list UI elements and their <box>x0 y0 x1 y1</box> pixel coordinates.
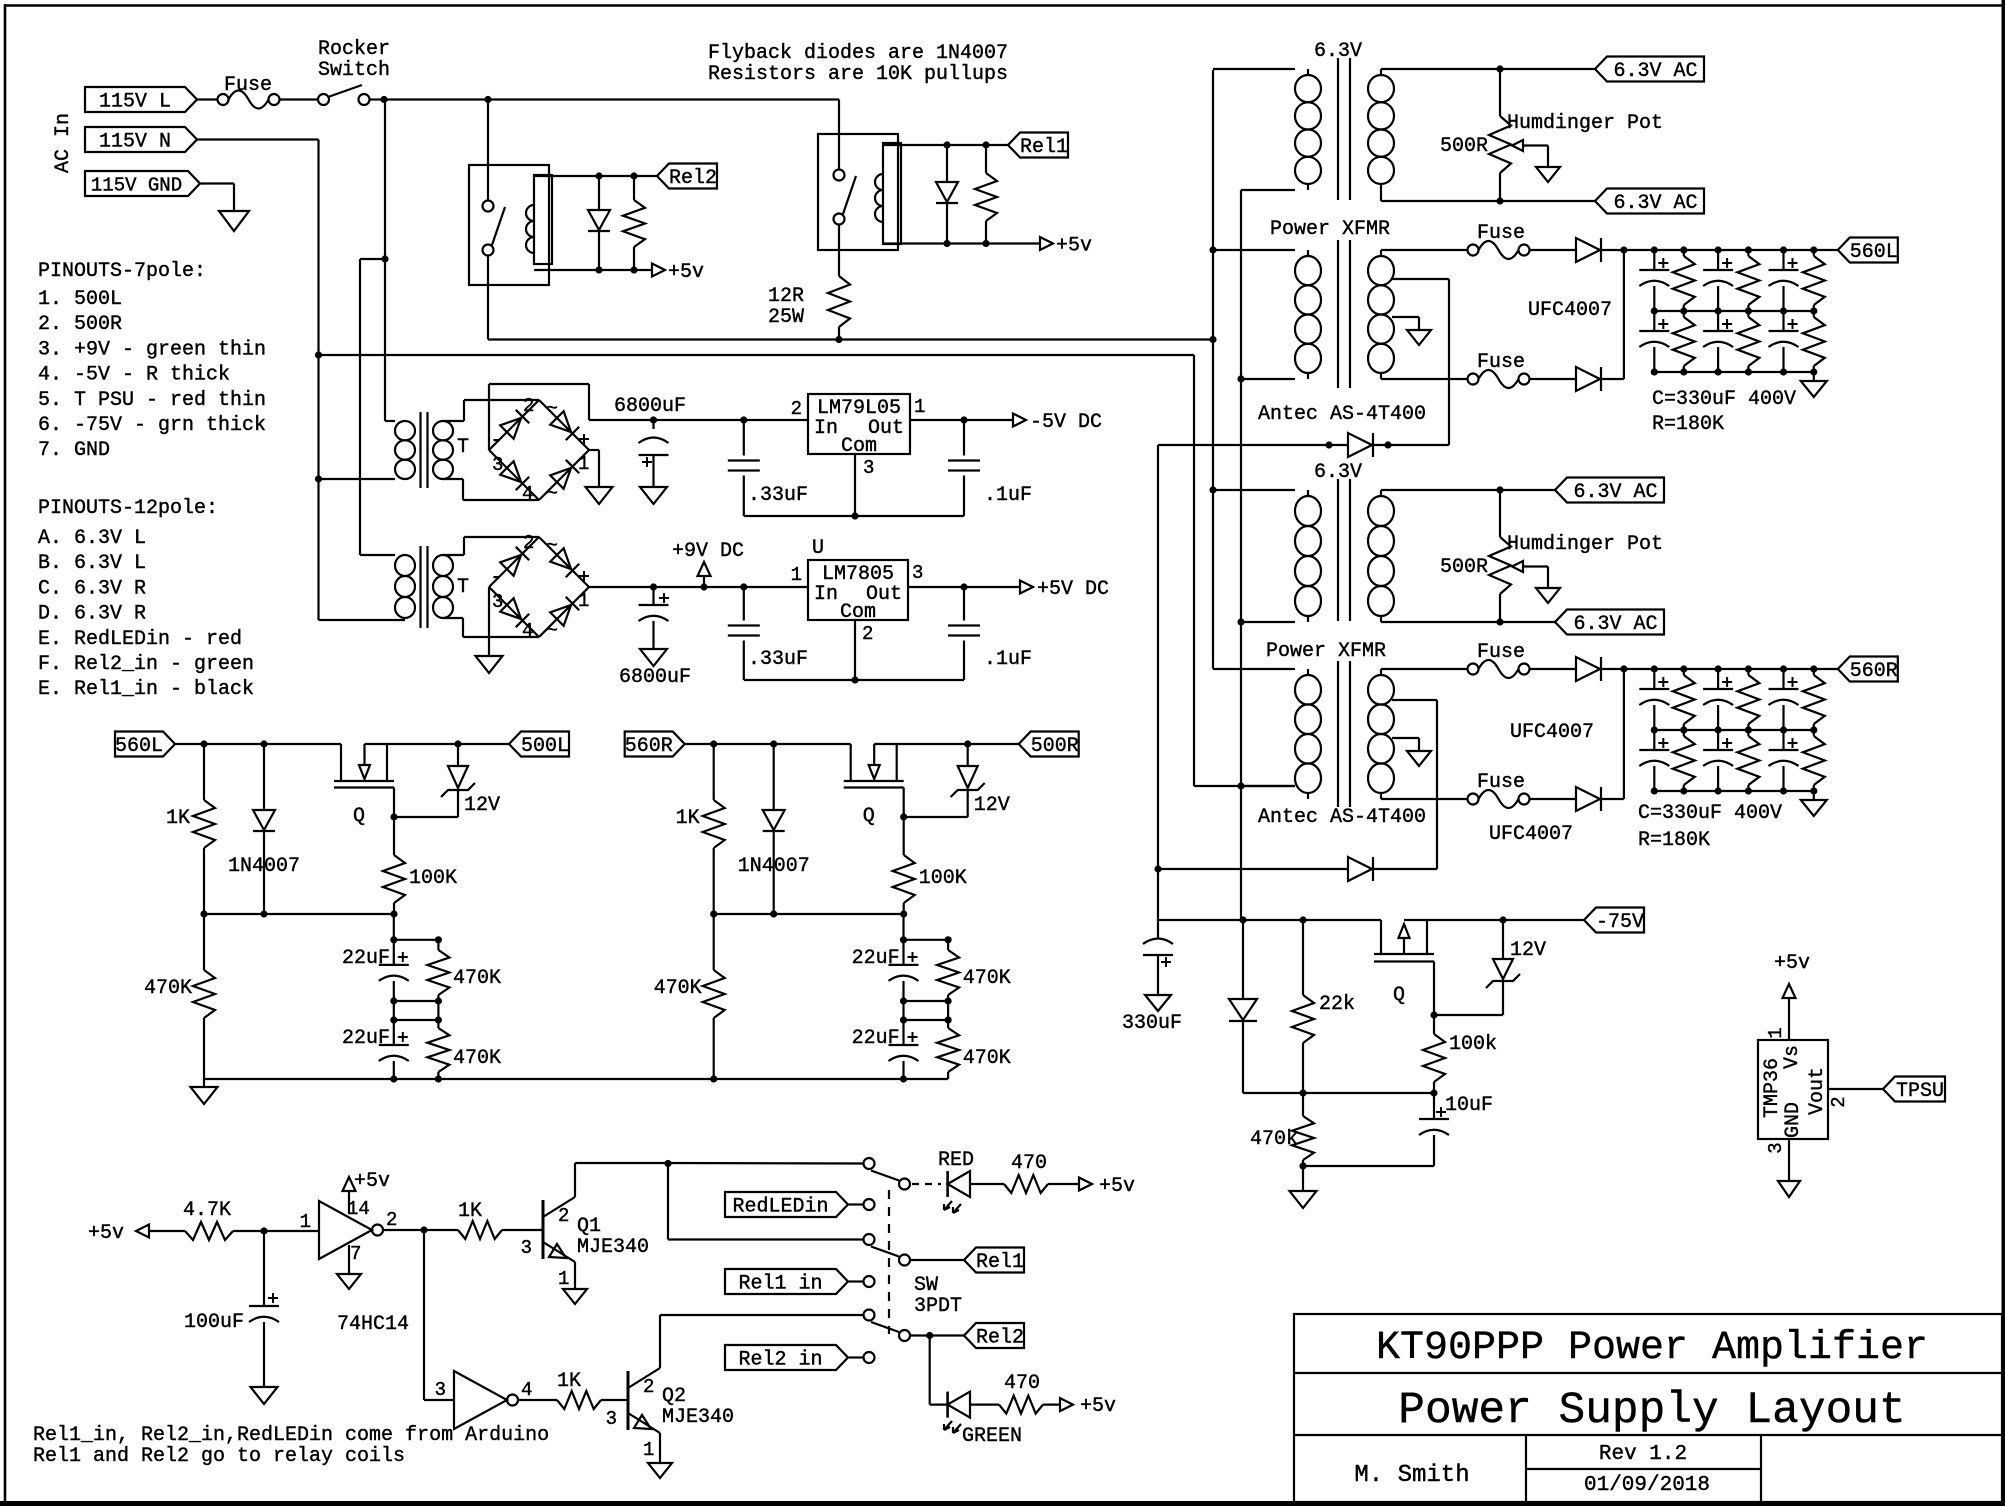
svg-text:~: ~ <box>546 398 558 421</box>
wire pole1 throw dashes <box>912 1183 941 1185</box>
junction humdinger pot1 top <box>1496 65 1503 72</box>
junction .1uF top <box>960 416 967 423</box>
zener D12 12V <box>1502 920 1504 959</box>
wire BR2 minus to ground <box>488 587 490 656</box>
resistor 470K left (R) <box>713 914 715 970</box>
svg-text:12V: 12V <box>464 794 500 817</box>
junction zener top (L) <box>454 740 461 747</box>
switch SW 3PDT pole3 <box>864 1310 875 1321</box>
capacitor bank C2a 330uF bank2 <box>1717 669 1719 689</box>
transformer PX1 heater core <box>1337 58 1339 200</box>
svg-text:10uF: 10uF <box>1445 1094 1493 1117</box>
svg-text:12R: 12R <box>768 285 804 308</box>
relay K1 coil bumps <box>875 174 883 222</box>
page border frame <box>4 4 7 1506</box>
arrow +5v logic in <box>136 1225 149 1238</box>
svg-text:3. +9V - green thin: 3. +9V - green thin <box>38 338 266 361</box>
svg-text:Rel1: Rel1 <box>1020 136 1068 159</box>
svg-text:F. Rel2_in - green: F. Rel2_in - green <box>38 653 254 676</box>
wire PX1 center tap to flyback <box>1392 278 1449 280</box>
svg-text:470K: 470K <box>963 1047 1011 1070</box>
transformer PX2 heater secondary coil <box>1380 490 1382 496</box>
wire ladder mid row 2 (R) <box>904 1019 949 1021</box>
svg-text:100uF: 100uF <box>184 1311 244 1334</box>
svg-text:3: 3 <box>435 1379 446 1401</box>
svg-text:Rel1: Rel1 <box>976 1251 1024 1274</box>
svg-text:.33uF: .33uF <box>748 648 808 671</box>
junction diode top (R) <box>770 740 777 747</box>
svg-text:560L: 560L <box>1850 241 1898 264</box>
resistor R 470 green <box>999 1396 1043 1414</box>
transformer T2 secondary coil <box>433 555 453 576</box>
pot2 wiper <box>1512 561 1523 572</box>
node Rel2 out tag <box>964 1323 1024 1348</box>
capacitor C 10uF <box>1433 1093 1435 1119</box>
node 560R tag right <box>1838 657 1898 682</box>
capacitor C .33uF (+5V) <box>743 587 745 621</box>
junction line A to xfmr feed <box>1209 336 1216 343</box>
switch link dashed <box>888 1190 890 1334</box>
transformer PX1 heater primary coil <box>1307 69 1309 75</box>
transformer T2 primary coil <box>395 555 415 576</box>
wire 10uF bottom row <box>1303 1165 1434 1167</box>
svg-text:6.3V AC: 6.3V AC <box>1613 192 1697 215</box>
svg-text:M. Smith: M. Smith <box>1354 1462 1469 1489</box>
capacitor bank C3a 330uF bank2 <box>1782 669 1784 689</box>
wire T2 primary top <box>360 554 395 556</box>
arrow +5v red <box>1079 1178 1092 1191</box>
capacitor 22uF lower (R) <box>902 1020 904 1045</box>
wire TMP36 pin2 <box>1828 1088 1883 1090</box>
svg-text:3: 3 <box>606 1408 617 1430</box>
svg-text:1: 1 <box>578 453 589 475</box>
transformer PX1 HV secondary coil <box>1380 250 1382 256</box>
wire switched L drop x385 <box>384 100 386 422</box>
wire pole3 feed <box>660 1314 864 1316</box>
diode K2 flyback 1N4007 <box>598 176 600 210</box>
zener 12V (R) <box>967 744 969 766</box>
junction x1213 HV1 top <box>1209 246 1216 253</box>
node Rel2 tag <box>657 164 717 189</box>
wire 560 rail left (L) <box>175 743 341 745</box>
inverter U3B 74HC14 <box>454 1371 507 1429</box>
capacitor bank C2a 330uF bank1 <box>1717 250 1719 270</box>
capacitor C 6800uF (+9V) <box>652 587 654 605</box>
diode D6 UFC4007 <box>1576 367 1600 391</box>
node Rel2 in tag <box>725 1345 848 1370</box>
junction -75V collect <box>1154 865 1161 872</box>
svg-text:R=180K: R=180K <box>1652 413 1724 436</box>
junction N line B tap <box>315 351 322 358</box>
diode K1 flyback 1N4007 <box>946 145 948 182</box>
diode D10 flyback to -75V <box>1348 857 1372 881</box>
svg-text:Q1: Q1 <box>577 1215 601 1238</box>
node 6.3V AC tag 2 <box>1595 189 1704 214</box>
resistor bank R3b 180K bank2 <box>1813 730 1815 736</box>
capacitor C .1uF (+5V) <box>963 587 965 621</box>
junction U2 com rail <box>851 512 858 519</box>
junction K2 res top <box>630 172 637 179</box>
ground ladder rail <box>191 1087 218 1104</box>
junction 6800uF top <box>650 416 657 423</box>
wire 560 rail right (L) <box>365 743 510 745</box>
svg-text:1K: 1K <box>676 807 700 830</box>
wire U1 ground rail <box>744 679 964 681</box>
node Rel1 out tag <box>964 1248 1024 1273</box>
node 560L tag left <box>115 732 175 757</box>
capacitor bank C1a 330uF bank2 <box>1653 669 1655 689</box>
diode D9 UFC4007 <box>1576 787 1600 811</box>
svg-text:C=330uF 400V: C=330uF 400V <box>1652 388 1796 411</box>
svg-text:22uF: 22uF <box>342 1027 390 1050</box>
wire TMP36 pin3 <box>1788 1139 1790 1181</box>
svg-text:6800uF: 6800uF <box>619 666 691 689</box>
resistor bank R3b 180K bank1 <box>1813 311 1815 317</box>
wire PX2 HV sec top <box>1381 668 1467 670</box>
svg-text:7: 7 <box>350 1243 361 1265</box>
ground capbank bank2 <box>1801 800 1827 816</box>
junction x1213 heater2 top <box>1209 486 1216 493</box>
svg-text:330uF: 330uF <box>1122 1012 1182 1035</box>
transformer PX2 HV secondary coil <box>1380 669 1382 675</box>
fuse F2 <box>1468 245 1479 256</box>
capacitor bank C2b 330uF bank1 <box>1717 311 1719 331</box>
fuse F1 <box>218 94 229 105</box>
wire U3B out <box>518 1399 557 1401</box>
junction -75V rail zener <box>1499 916 1506 923</box>
svg-text:Fuse: Fuse <box>1477 771 1525 794</box>
resistor 470K lower right (R) <box>947 1020 949 1028</box>
svg-text:PINOUTS-12pole:: PINOUTS-12pole: <box>38 497 218 520</box>
junction +9V arrow tap <box>700 583 707 590</box>
node TPSU tag <box>1883 1077 1945 1102</box>
ground 6800uF2 <box>640 649 667 666</box>
junction .33uF top <box>740 416 747 423</box>
resistor R 4.7K <box>185 1222 233 1240</box>
svg-text:22uF: 22uF <box>852 1027 900 1050</box>
wire BR1 minus loop to -5V rail <box>488 384 490 450</box>
junction switched L at x488 <box>484 96 491 103</box>
resistor 470K upper right (R) <box>947 940 949 950</box>
node 560R tag left <box>625 732 685 757</box>
title block outer <box>1294 1314 2002 1502</box>
svg-text:2: 2 <box>386 1209 397 1231</box>
wire L rail into K2 switch <box>487 100 489 201</box>
svg-text:GND: GND <box>1782 1102 1805 1138</box>
junction switched L at x384 <box>380 96 387 103</box>
zener 12V (L) <box>457 744 459 766</box>
svg-text:1K: 1K <box>557 1370 581 1393</box>
relay K2 switch <box>483 201 494 212</box>
regulator U2 LM79L05 box <box>808 394 910 454</box>
svg-text:22uF: 22uF <box>342 947 390 970</box>
svg-text:PINOUTS-7pole:: PINOUTS-7pole: <box>38 260 206 283</box>
junction x1241 HV1 bottom <box>1237 375 1244 382</box>
wire -5V rail <box>589 419 808 421</box>
capacitor C .1uF (-5V) <box>963 420 965 456</box>
resistor R 12R 25W <box>838 250 840 276</box>
relay K1 switch <box>834 170 845 181</box>
resistor R 22k <box>1302 920 1304 995</box>
mosfet Q4 pass (R) <box>850 744 852 781</box>
svg-text:Com: Com <box>841 435 877 458</box>
transformer PX1 HV core <box>1337 240 1339 388</box>
svg-text:MJE340: MJE340 <box>577 1236 649 1259</box>
relay K2 outer box <box>469 165 549 285</box>
wire pole2 feed <box>667 1164 669 1240</box>
label BR1 plus <box>579 438 589 440</box>
wire PX2 heater sec top <box>1381 489 1555 491</box>
svg-text:500L: 500L <box>521 735 569 758</box>
svg-text:Rel1 in: Rel1 in <box>738 1273 822 1296</box>
transformer T1 secondary coil <box>433 421 453 440</box>
junction 560R node <box>1620 665 1627 672</box>
node 500R tag <box>1019 732 1079 757</box>
svg-text:E. Rel1_in - black: E. Rel1_in - black <box>38 678 254 701</box>
resistor R 1K base Q1 <box>458 1221 502 1239</box>
junction 1K top (R) <box>710 740 717 747</box>
svg-text:Rev 1.2: Rev 1.2 <box>1599 1443 1687 1466</box>
svg-text:Rel1_in, Rel2_in,RedLEDin com: Rel1_in, Rel2_in,RedLEDin come from Ardu… <box>33 1424 549 1447</box>
svg-text:Humdinger Pot: Humdinger Pot <box>1507 112 1663 135</box>
transistor Q2 MJE340 <box>627 1371 630 1430</box>
svg-text:3PDT: 3PDT <box>914 1295 962 1318</box>
capacitor bank C3a 330uF bank1 <box>1782 250 1784 270</box>
svg-text:560R: 560R <box>1850 660 1898 683</box>
svg-text:Power Supply Layout: Power Supply Layout <box>1398 1386 1905 1436</box>
relay K2 coil box <box>534 175 552 264</box>
wire -75V divider row <box>1243 1092 1434 1094</box>
pot1 wiper <box>1512 140 1523 151</box>
svg-text:Fuse: Fuse <box>224 74 272 97</box>
wire D5 to 560L node <box>1601 249 1624 251</box>
capacitor 22uF upper (R) <box>902 940 904 965</box>
junction K2 diode bottom <box>595 266 602 273</box>
wire -75V vertical x1158 <box>1157 445 1159 920</box>
wire U2 com <box>854 454 856 516</box>
ic TMP36 box <box>1758 1040 1828 1139</box>
svg-text:AC In: AC In <box>52 113 75 173</box>
ground pot1 wiper <box>1536 167 1560 182</box>
node 115V N input tag <box>85 127 197 152</box>
wire ladder mid row 2 (L) <box>394 1019 439 1021</box>
wire PX2 HV prim top <box>1212 657 1214 669</box>
svg-text:22uF: 22uF <box>852 947 900 970</box>
wire D8 to 560R node <box>1601 668 1624 670</box>
resistor R 1K base Q2 <box>557 1391 601 1409</box>
svg-text:22k: 22k <box>1319 993 1355 1016</box>
svg-text:RED: RED <box>938 1149 974 1172</box>
ground pot2 wiper <box>1536 588 1560 603</box>
ground 115V GND <box>219 211 249 231</box>
wire F3 to D6 <box>1530 378 1577 380</box>
wire gate divider row (L) <box>204 913 394 915</box>
wire PX1 heater prim bottom <box>1241 189 1295 191</box>
diode 1N4007 (L) <box>263 744 265 810</box>
svg-text:MJE340: MJE340 <box>662 1406 734 1429</box>
svg-text:Fuse: Fuse <box>1477 641 1525 664</box>
node -75V tag <box>1584 908 1644 933</box>
svg-text:3: 3 <box>912 562 923 584</box>
svg-text:3: 3 <box>492 591 503 613</box>
svg-text:~: ~ <box>546 535 558 558</box>
wire N to T2 primary bottom <box>319 619 406 621</box>
wire D9 up to 560R node <box>1601 798 1624 800</box>
svg-text:A. 6.3V L: A. 6.3V L <box>38 527 146 550</box>
svg-text:-: - <box>490 565 503 590</box>
wire F4 to D8 <box>1530 668 1577 670</box>
transformer T1 core <box>419 412 421 488</box>
junction humdinger pot1 bottom <box>1496 197 1503 204</box>
svg-text:+5v: +5v <box>668 261 704 284</box>
ground PX2 tap <box>1407 751 1431 766</box>
svg-text:Humdinger Pot: Humdinger Pot <box>1507 533 1663 556</box>
wire PX2 HV sec bottom <box>1381 798 1467 800</box>
svg-text:Q: Q <box>1393 984 1405 1007</box>
svg-text:3: 3 <box>863 457 874 479</box>
junction 1K top (L) <box>200 740 207 747</box>
svg-text:Fuse: Fuse <box>1477 222 1525 245</box>
wire -75V flyback line 2 <box>1158 868 1348 870</box>
svg-text:1. 500L: 1. 500L <box>38 288 122 311</box>
svg-text:4: 4 <box>521 1379 532 1401</box>
node 6.3V AC tag 4 <box>1555 610 1664 635</box>
svg-text:470K: 470K <box>144 977 192 1000</box>
ground Q2 emitter <box>648 1463 672 1478</box>
svg-text:1K: 1K <box>458 1200 482 1223</box>
capacitor bank C1b 330uF bank2 <box>1653 730 1655 750</box>
svg-text:Rel1 and Rel2 go to relay coil: Rel1 and Rel2 go to relay coils <box>33 1445 405 1468</box>
wire Rel2in to contact <box>848 1356 864 1358</box>
wire PX1 heater sec bottom <box>1380 190 1382 201</box>
wire PX1 HV sec top <box>1381 249 1467 251</box>
svg-text:E. RedLEDin - red: E. RedLEDin - red <box>38 628 242 651</box>
svg-text:470k: 470k <box>1250 1128 1298 1151</box>
svg-text:115V GND: 115V GND <box>91 175 182 197</box>
svg-text:Rocker: Rocker <box>318 38 390 61</box>
wire ladder top row (L) <box>393 914 395 940</box>
svg-text:Fuse: Fuse <box>1477 351 1525 374</box>
svg-text:SW: SW <box>914 1274 938 1297</box>
wire RedLEDin to contact <box>848 1203 864 1205</box>
wire xfmr return vertical x1241 <box>1240 190 1242 920</box>
ground 6800uF <box>640 487 667 504</box>
svg-text:Q: Q <box>353 805 365 828</box>
svg-text:+5v: +5v <box>1080 1395 1116 1418</box>
relay K1 outer box <box>818 134 898 250</box>
node 560L tag right <box>1838 238 1898 263</box>
capacitor bank C2b 330uF bank2 <box>1717 730 1719 750</box>
wire ladder top row (R) <box>902 914 904 940</box>
relay K1 coil box <box>883 143 901 244</box>
svg-text:4.7K: 4.7K <box>183 1199 231 1222</box>
capacitor C 330uF <box>1157 920 1159 938</box>
wire tap segment y259 <box>360 258 385 260</box>
svg-text:2: 2 <box>523 395 534 417</box>
junction .33uF2 top <box>740 583 747 590</box>
svg-text:UFC4007: UFC4007 <box>1489 823 1573 846</box>
resistor 470K lower right (L) <box>437 1020 439 1028</box>
resistor 470K left (L) <box>203 914 205 970</box>
inverter U3A 74HC14 <box>319 1201 372 1259</box>
wire 115V L tag to fuse <box>197 98 217 100</box>
mosfet Q5 -75V <box>1380 920 1382 954</box>
svg-text:In: In <box>814 417 838 440</box>
junction K1 diode top <box>943 141 950 148</box>
resistor 100K gate (L) <box>393 817 395 855</box>
wire T2 sec top to bridge <box>443 554 464 556</box>
wire PX1 HV prim top <box>1213 249 1295 251</box>
wire Rel1in to contact <box>848 1280 864 1282</box>
capacitor C 6800uF (-5V) <box>652 420 654 429</box>
svg-text:1: 1 <box>578 590 589 612</box>
arrow +5v U3A <box>343 1177 356 1191</box>
svg-text:1: 1 <box>914 396 925 418</box>
wire PX1 heater prim top <box>1213 68 1295 70</box>
diode D7 flyback to -75V <box>1348 433 1372 457</box>
wire inverter2 input drop <box>423 1230 425 1400</box>
arrow -5V DC <box>1013 414 1026 427</box>
wire U3A vcc stem <box>348 1191 350 1214</box>
svg-text:Resistors are 10K pullups: Resistors are 10K pullups <box>708 63 1008 86</box>
diode D5 UFC4007 <box>1576 238 1600 262</box>
svg-text:1: 1 <box>643 1439 654 1461</box>
resistor bank R1a 180K bank1 <box>1683 250 1685 256</box>
wire +5v to 4.7K <box>149 1230 185 1232</box>
wire capbank ground stem bank1 <box>1813 372 1815 381</box>
svg-text:6.3V: 6.3V <box>1314 40 1362 63</box>
arrow +5v green <box>1060 1398 1073 1411</box>
led LED1 RED <box>946 1171 949 1197</box>
switch contact Rel2in <box>864 1352 875 1363</box>
wire switched L drop x360 <box>359 259 361 555</box>
wire capbank bottom rail bank2 <box>1654 790 1814 792</box>
resistor bank R3a 180K bank2 <box>1813 669 1815 675</box>
svg-text:14: 14 <box>347 1198 370 1220</box>
junction green led tap <box>926 1332 933 1339</box>
node RedLEDin tag <box>725 1192 848 1217</box>
svg-text:4. -5V - R thick: 4. -5V - R thick <box>38 364 230 387</box>
svg-text:+5V DC: +5V DC <box>1037 578 1109 601</box>
wire U3A gnd stem <box>348 1245 350 1274</box>
svg-text:+9V DC: +9V DC <box>672 540 744 563</box>
wire F5 to D9 <box>1530 798 1577 800</box>
fuse F4 <box>1468 664 1479 675</box>
diode D11 clamp <box>1242 920 1244 999</box>
svg-text:4: 4 <box>522 483 533 505</box>
svg-text:+5v: +5v <box>88 1222 124 1245</box>
resistor bank R1b 180K bank1 <box>1683 311 1685 317</box>
wire ladder mid row 1 (L) <box>394 1000 439 1002</box>
svg-text:115V N: 115V N <box>99 131 171 154</box>
svg-text:-75V: -75V <box>1596 911 1644 934</box>
wire PX1 tap to ground <box>1392 316 1419 318</box>
wire PX1 HV sec bottom <box>1381 378 1467 380</box>
wire K2 coil top rail <box>534 175 657 177</box>
svg-text:1: 1 <box>791 564 802 586</box>
wire PX2 heater prim top <box>1213 489 1295 491</box>
wire K1 switch out <box>838 225 840 251</box>
svg-text:In: In <box>814 583 838 606</box>
arrow +9V DC <box>703 576 705 587</box>
svg-text:2: 2 <box>791 398 802 420</box>
title block divider 1 <box>1294 1372 2002 1374</box>
ground BR1 plus <box>586 487 613 504</box>
svg-text:6800uF: 6800uF <box>614 395 686 418</box>
wire PX2 heater sec bottom <box>1381 621 1555 623</box>
svg-text:C. 6.3V R: C. 6.3V R <box>38 577 146 600</box>
wire switched L rail <box>384 98 839 100</box>
